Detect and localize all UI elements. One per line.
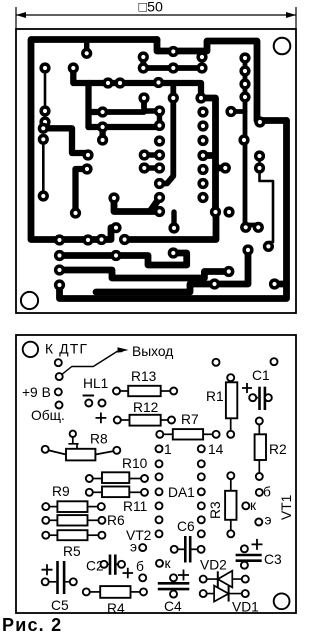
svg-text:R13: R13	[131, 369, 157, 384]
diode VD1	[203, 593, 245, 595]
pad (259.5,168)	[254, 162, 265, 173]
svg-text:R5: R5	[63, 544, 81, 559]
wire: stub up	[171, 212, 176, 228]
pad (268.4,246.4)	[263, 241, 274, 252]
svg-text:C4: C4	[164, 599, 182, 614]
figure caption	[2, 615, 62, 636]
mounting hole top-right	[274, 38, 291, 55]
resistor R4	[86, 591, 100, 593]
pad (245,58)	[239, 52, 250, 63]
pad (88,155)	[82, 149, 93, 160]
svg-text:R9: R9	[52, 484, 70, 499]
wire: staircase Z1	[116, 253, 187, 265]
wire: right frame bottom	[60, 121, 287, 299]
pad (158.5,82.5)	[153, 77, 164, 88]
wire: thin left	[44, 68, 47, 111]
capacitor C3	[252, 539, 263, 550]
pad (159.5,197.5)	[154, 192, 165, 203]
pad (203,126)	[197, 120, 208, 131]
svg-text:к: к	[165, 556, 172, 571]
pad (203,183.5)	[197, 178, 208, 189]
wire: staircase Z2	[60, 270, 229, 278]
svg-text:R4: R4	[107, 601, 125, 616]
pad (201,98)	[195, 92, 206, 103]
svg-text:R8: R8	[90, 432, 108, 447]
pad (173.3,68)	[168, 62, 179, 73]
pad (43.3,139.3)	[38, 134, 49, 145]
svg-text:к: к	[250, 498, 257, 513]
pad (228.8,271.5)	[223, 266, 234, 277]
wire: horizontal bus y83	[73, 68, 201, 98]
pad (245,84)	[239, 78, 250, 89]
svg-text:R3: R3	[208, 501, 223, 519]
pad (59.5,255.5)	[54, 250, 65, 261]
wire: column x245	[245, 58, 258, 227]
node pad	[213, 359, 220, 366]
pad (248,250)	[242, 244, 253, 255]
wire: thin left 2	[42, 139, 45, 196]
pad (274.5,284)	[269, 278, 280, 289]
pad (259.9,122)	[254, 116, 265, 127]
pad (102.6,140)	[97, 134, 108, 145]
pad (203,169.5)	[197, 164, 208, 175]
pad (45,111)	[39, 105, 50, 116]
wire: run y127	[89, 127, 159, 140]
svg-text:R2: R2	[269, 442, 287, 457]
capacitor C4	[178, 570, 189, 581]
svg-text:1: 1	[164, 442, 172, 457]
pad (73.3,68)	[68, 62, 79, 73]
svg-text:К ДТГ: К ДТГ	[45, 342, 88, 357]
svg-text:R11: R11	[123, 499, 147, 514]
wire: stub pad to column	[231, 109, 245, 114]
svg-text:C1: C1	[252, 368, 270, 383]
pad (258.3,227.3)	[253, 222, 264, 233]
pad (144,98)	[138, 92, 149, 103]
pad (144.3,168)	[139, 162, 150, 173]
pad (203,197.5)	[197, 192, 208, 203]
wire: branch to pad	[275, 281, 287, 288]
pad (87,169)	[81, 163, 92, 174]
dimension line	[16, 14, 296, 16]
wire: vertical x214	[201, 98, 225, 212]
wire: stub	[146, 111, 160, 126]
pad (144.3,155)	[139, 149, 150, 160]
svg-text:C5: C5	[51, 598, 69, 613]
node pad	[55, 388, 62, 395]
pad (43.3,128.3)	[38, 123, 49, 134]
pad (143.3,68)	[138, 62, 149, 73]
pad (101.5,239.5)	[96, 234, 107, 245]
pad (159.5,155)	[154, 149, 165, 160]
svg-text:б: б	[136, 559, 144, 574]
svg-text:+9 В: +9 В	[22, 385, 51, 400]
pad (75.5,213)	[70, 207, 81, 218]
pad (102.6,127)	[97, 121, 108, 132]
pad (231,111.5)	[225, 106, 236, 117]
svg-text:э: э	[130, 540, 137, 555]
wire: run to pad D	[114, 198, 160, 212]
wire: junction vertical x88.5	[89, 83, 103, 127]
pad (143.3,57)	[138, 51, 149, 62]
wire: long stub bus down to pad	[160, 83, 174, 184]
pad (159.5,141)	[154, 135, 165, 146]
node pad	[271, 358, 278, 365]
wire: row2 link	[60, 252, 117, 259]
svg-text:DA1: DA1	[168, 485, 195, 500]
svg-text:□50: □50	[139, 0, 163, 16]
pad (88,240)	[82, 234, 93, 245]
pad (259.5,156)	[254, 150, 265, 161]
pad (59.5,285)	[54, 279, 65, 290]
node pad	[56, 373, 63, 380]
wire: net C run	[125, 213, 216, 240]
wire: dumbbell	[144, 165, 159, 170]
svg-text:VD1: VD1	[232, 600, 259, 615]
pad (120,83)	[114, 77, 125, 88]
capacitor C5	[42, 564, 53, 575]
wire: output arrow	[59, 352, 122, 377]
wire: staircase Z3	[96, 250, 248, 292]
pad (202,68)	[196, 62, 207, 73]
pad (116,227.7)	[110, 222, 121, 233]
svg-text:VD2: VD2	[200, 558, 227, 573]
pad (245,97)	[239, 91, 250, 102]
pad (86.7,53.3)	[81, 48, 92, 59]
svg-text:R10: R10	[122, 456, 148, 471]
svg-text:HL1: HL1	[83, 376, 108, 391]
svg-text:Выход: Выход	[132, 344, 173, 359]
pad (244,140)	[238, 134, 249, 145]
pad (203,112)	[197, 106, 208, 117]
pad (116,255.5)	[110, 250, 121, 261]
svg-text:R12: R12	[133, 400, 158, 415]
svg-text:14: 14	[208, 442, 224, 457]
polarity plus	[96, 413, 107, 424]
svg-text:э: э	[265, 513, 272, 528]
wire: y68 link	[143, 57, 202, 68]
pad (59.5,240)	[54, 234, 65, 245]
pad (102.6,112)	[97, 106, 108, 117]
pad (245,71)	[239, 65, 250, 76]
svg-text:C6: C6	[177, 519, 195, 534]
pad (214.5,284)	[209, 278, 220, 289]
pad (124.6,239.5)	[119, 234, 130, 245]
svg-text:R1: R1	[206, 389, 224, 404]
pad (173.3,51.5)	[168, 46, 179, 57]
pad (229,212)	[223, 206, 234, 217]
pad (159.5,125.5)	[154, 120, 165, 131]
svg-text:C3: C3	[264, 552, 282, 567]
pad (215.5,212)	[210, 206, 221, 217]
pad (203,140.5)	[197, 135, 208, 146]
node pad	[55, 359, 62, 366]
node pad	[56, 402, 63, 409]
mounting hole bottom-right	[274, 593, 290, 609]
svg-text:Общ.: Общ.	[31, 408, 65, 423]
pad (245.7,227.3)	[240, 222, 251, 233]
pad (173.3,253)	[168, 247, 179, 258]
svg-text:R6: R6	[107, 513, 125, 528]
wire: top rail, jog, U frame, left rail	[31, 40, 157, 240]
pad (114,198)	[108, 192, 119, 203]
wire: elbow down to pad	[76, 169, 88, 213]
pad (59.5,270)	[54, 264, 65, 275]
component-side board outline	[16, 335, 296, 613]
wire: elbow	[103, 98, 144, 112]
svg-text:VT1: VT1	[279, 495, 294, 520]
pad (159.5,183.5)	[154, 178, 165, 189]
wire: thin right chain	[260, 156, 274, 246]
mounting hole bottom-left	[21, 292, 38, 309]
pad (173.3,98)	[168, 92, 179, 103]
svg-text:б: б	[263, 485, 271, 500]
wire: dumbbell	[144, 152, 159, 157]
PCB copper-side board outline	[16, 29, 296, 313]
pad (202,57)	[196, 51, 207, 62]
wire: run to pad via x72	[43, 128, 88, 153]
pad (174,228)	[168, 222, 179, 233]
svg-text:R7: R7	[181, 412, 199, 427]
pad (159.5,168)	[154, 162, 165, 173]
wire: stub to pad	[84, 40, 89, 53]
pad (45,68)	[39, 62, 50, 73]
wire: elbow up to pad	[102, 228, 117, 240]
pad (203,155.5)	[197, 150, 208, 161]
pad (43.3,196)	[38, 190, 49, 201]
pad (225.3,168)	[220, 162, 231, 173]
pad (159.5,211.5)	[154, 206, 165, 217]
mounting hole top-left	[23, 342, 38, 357]
pad (45,122)	[39, 116, 50, 127]
pad (108,83)	[102, 77, 113, 88]
pad (159.5,111)	[154, 105, 165, 116]
